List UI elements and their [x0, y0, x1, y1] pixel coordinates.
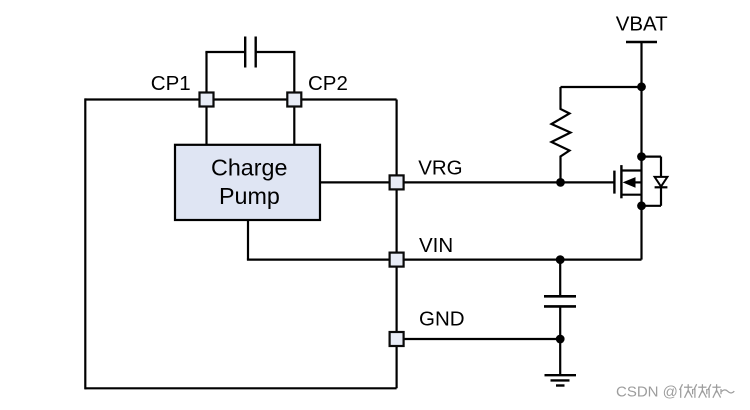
node junction VIN-cap: [556, 255, 565, 264]
pad CP2: [287, 93, 301, 107]
ground symbol: [545, 339, 577, 386]
op-amp block U1 charge pump box: [175, 145, 320, 220]
svg-text:VRG: VRG: [418, 156, 462, 179]
pad GND: [390, 332, 404, 346]
node junction GND-cap: [556, 335, 565, 344]
resistor R1 zigzag: [552, 87, 571, 182]
svg-text:CP2: CP2: [308, 72, 348, 95]
wire charge pump box bottom vertical: [247, 220, 249, 260]
power VBAT rail bar: [626, 41, 657, 43]
drain stub: [621, 169, 641, 171]
wire flying-cap loop left vertical: [205, 52, 207, 100]
wire charge pump box bottom to VIN pad: [247, 259, 397, 261]
svg-text:Charge: Charge: [211, 154, 287, 180]
pad CP1: [200, 93, 214, 107]
svg-text:CP1: CP1: [151, 72, 191, 95]
svg-text:Pump: Pump: [219, 183, 280, 209]
wire left vertical of outer loop: [84, 98, 86, 389]
svg-text:VIN: VIN: [419, 234, 453, 257]
body arrow: [623, 177, 636, 188]
wire flying-cap loop right vertical: [293, 52, 295, 100]
channel bar: [620, 165, 622, 198]
wire VRG row right (gate lead): [397, 181, 615, 183]
wire charge pump box to VRG pad: [320, 181, 397, 183]
node junction VBAT-resistor: [637, 82, 646, 91]
wire flying-cap loop top-right horizontal: [256, 51, 296, 53]
capacitor C1 flying capacitor plates: [245, 37, 256, 68]
wire CP2 pad to charge pump box: [293, 100, 295, 146]
gate bar: [613, 171, 615, 194]
wire GND row right: [397, 338, 561, 340]
wire CP1 pad to charge pump box: [205, 100, 207, 146]
wire VBAT vertical down to VIN row: [640, 42, 642, 260]
source stub: [621, 194, 641, 196]
wire bottom horizontal of outer loop: [85, 387, 396, 389]
node junction drain-diode: [637, 152, 646, 161]
node junction resistor-VRG: [556, 178, 565, 187]
watermark Chinese characters drawn as strokes: [680, 384, 735, 398]
wire main vertical (pin column): [396, 100, 398, 389]
transistor Q1 NMOS: [614, 165, 641, 198]
wire flying-cap loop top-left horizontal: [205, 51, 245, 53]
wire VIN row right: [397, 259, 642, 261]
svg-text:VBAT: VBAT: [616, 13, 668, 36]
pad VIN: [390, 253, 404, 267]
pad VRG: [390, 175, 404, 189]
diode D1 body diode branch: [642, 157, 668, 206]
capacitor C2 output capacitor: [544, 260, 576, 339]
node junction source-diode: [637, 201, 646, 210]
svg-text:GND: GND: [419, 308, 465, 331]
wire top-left horizontal (CP1 row): [85, 98, 396, 100]
wire resistor top horizontal branch: [561, 86, 642, 88]
svg-text:CSDN @: CSDN @: [616, 384, 678, 401]
